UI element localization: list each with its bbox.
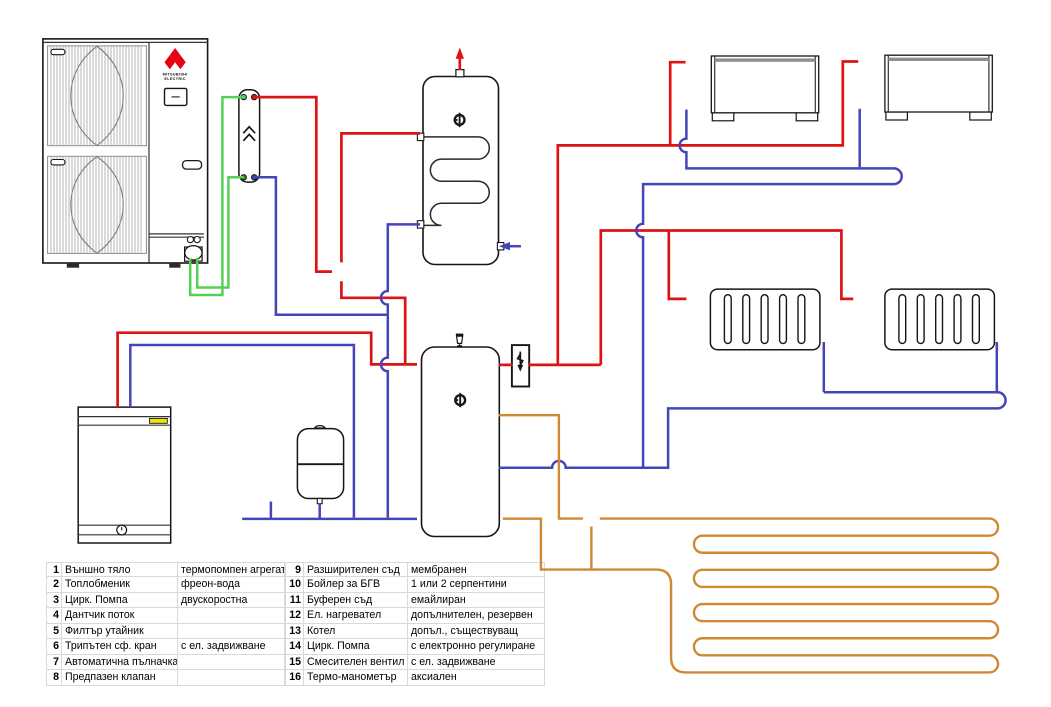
svg-text:ELECTRIC: ELECTRIC [164, 77, 185, 81]
wire: red primary supply HX to 3-way valve 6 [255, 97, 333, 272]
radiator B [885, 289, 995, 350]
DHW boiler 10 [417, 48, 521, 265]
wire: green refrigerant line outdoor-unit to HX top-left [190, 97, 244, 295]
electric heater 12 [512, 345, 529, 386]
wire: red branch riser to fan coil A valve [670, 62, 685, 145]
wire: red from DHW boiler coil inlet down to valve 6 top [341, 133, 420, 262]
svg-text:MITSUBISHI: MITSUBISHI [163, 72, 188, 76]
wire: blue radiator B return drop [996, 342, 999, 392]
wire: blue radiator A return drop [823, 342, 826, 392]
wire: blue DHW coil return down to buffer bottom-left (with hops) [381, 224, 420, 517]
wire: red pump 14a riser and fan-coil supply header [558, 62, 858, 365]
plate heat exchanger 2 [239, 90, 260, 182]
wire: blue fan coil B return drop [858, 109, 861, 167]
wire: blue HX secondary return down through pump 3 group [255, 177, 387, 314]
outdoor unit 1 (Mitsubishi heat pump) [43, 39, 208, 268]
wire: blue fan coil A return with hops and U-turn header [636, 110, 901, 467]
air vent on tank top [457, 336, 463, 343]
fan coil unit B [885, 55, 992, 120]
legend table [46, 562, 545, 686]
radiator A [710, 289, 820, 350]
Mitsubishi logo [165, 48, 186, 69]
wire: blue heating return buffer mid port to radiators (hop over orange) [499, 392, 1006, 468]
wire: blue stub safety valve 8 [270, 502, 273, 519]
expansion vessel 9 [297, 426, 343, 504]
wire: orange floor heating serpentine loop and return to buffer [503, 519, 998, 673]
wire: red pump 14b riser and radiator supply header [601, 231, 853, 365]
wire: orange floor supply from buffer top-right port to mixing valve [499, 415, 584, 518]
fan coil unit A [711, 56, 818, 121]
existing boiler 13 [78, 407, 171, 543]
wire: blue bottom header filler line to buffer bottom-left port [242, 518, 417, 521]
wire: orange mixing valve bottom stub to return line [590, 527, 592, 570]
wire: blue boiler 13 return loop [130, 345, 354, 518]
buffer tank 11 [422, 334, 500, 537]
wire: red boiler 13 supply riser to buffer tank left port [118, 333, 417, 407]
wire: red valve 6 bottom to buffer tank left port [341, 281, 405, 364]
wire: red buffer tank right port through heater 12 to pump headers [499, 364, 601, 367]
wire: red branch drop to radiator A valve [669, 231, 687, 299]
wire: blue stub expansion vessel 9 [318, 503, 321, 519]
wire: green refrigerant line outdoor-unit to HX bottom-left [197, 177, 244, 287]
